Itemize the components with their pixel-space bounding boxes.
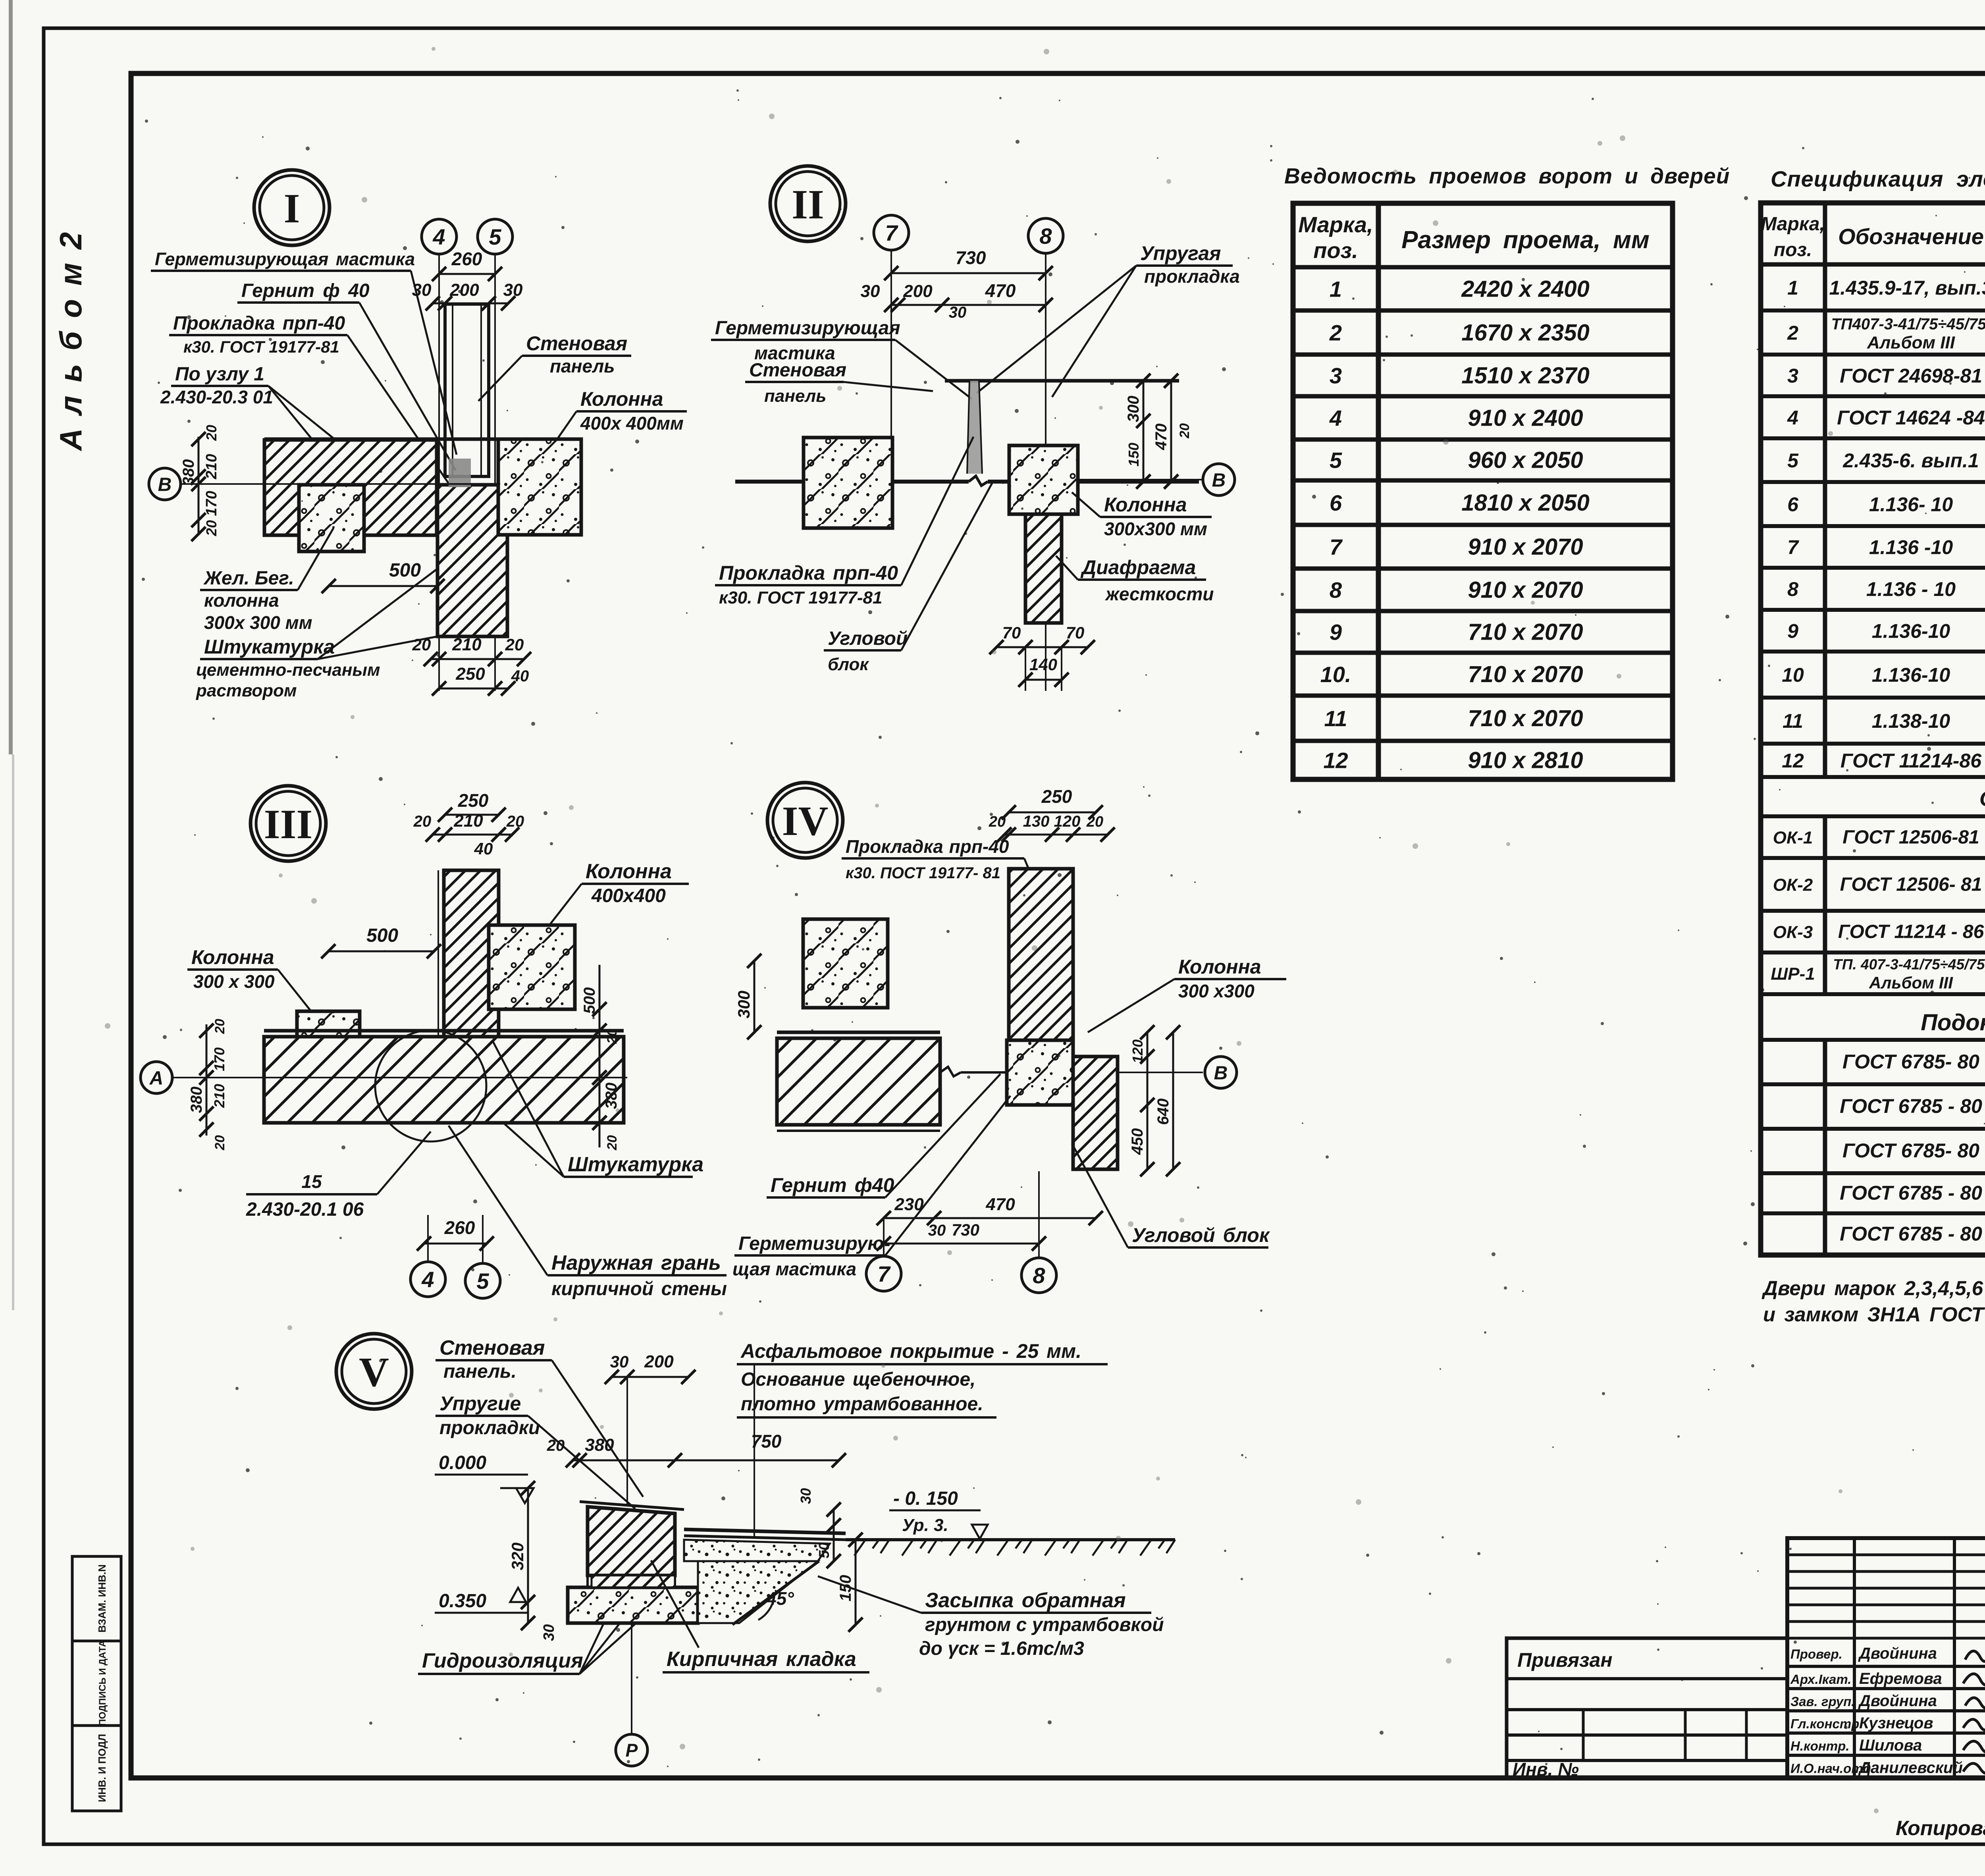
svg-text:170: 170 xyxy=(203,491,220,516)
svg-text:Размер проема, мм: Размер проема, мм xyxy=(1401,226,1650,254)
svg-text:плотно утрамбованное.: плотно утрамбованное. xyxy=(741,1394,983,1415)
svg-text:380: 380 xyxy=(180,459,197,486)
spec section okna xyxy=(1761,814,1985,818)
svg-text:ГОСТ 11214-86: ГОСТ 11214-86 xyxy=(1840,750,1982,772)
svg-text:Обозначение: Обозначение xyxy=(1838,224,1984,249)
svg-text:Зав. груп.: Зав. груп. xyxy=(1790,1694,1855,1709)
spec row ОК-3 xyxy=(1761,951,1985,954)
svg-text:300х300 мм: 300х300 мм xyxy=(1104,519,1207,539)
svg-text:раствором: раствором xyxy=(196,681,297,700)
detail V vert dims xyxy=(527,1488,529,1623)
svg-text:960 х 2050: 960 х 2050 xyxy=(1468,447,1583,473)
detail III slab xyxy=(264,1029,624,1033)
svg-text:200: 200 xyxy=(644,1352,674,1371)
svg-text:1510 х 2370: 1510 х 2370 xyxy=(1461,363,1590,389)
svg-text:к30. ГОСТ 19177-81: к30. ГОСТ 19177-81 xyxy=(183,337,339,356)
scan edge streak xyxy=(9,0,13,754)
svg-text:Стеновая: Стеновая xyxy=(439,1336,545,1359)
svg-text:Шилова: Шилова xyxy=(1859,1737,1922,1754)
svg-text:5: 5 xyxy=(476,1269,489,1294)
detail IV head circle xyxy=(767,783,843,858)
svg-text:к30. ПОСТ 19177- 81: к30. ПОСТ 19177- 81 xyxy=(846,864,1000,882)
detail III node circle xyxy=(375,1030,486,1141)
svg-text:710 х 2070: 710 х 2070 xyxy=(1468,661,1583,687)
svg-text:Двойнина: Двойнина xyxy=(1858,1645,1937,1662)
detail III axis bubble A xyxy=(141,1062,172,1093)
ground hatch tick xyxy=(1045,1540,1056,1556)
detail I left dim stack xyxy=(198,437,200,534)
svg-text:200: 200 xyxy=(449,280,479,300)
detail II sealant strip xyxy=(967,381,982,474)
svg-text:к30. ГОСТ 19177-81: к30. ГОСТ 19177-81 xyxy=(719,588,883,607)
svg-text:710 х 2070: 710 х 2070 xyxy=(1468,619,1583,645)
svg-text:130: 130 xyxy=(1023,813,1050,830)
svg-text:Упругая: Упругая xyxy=(1140,242,1221,264)
detail II left concrete block xyxy=(804,438,892,528)
spec row ОК-2 xyxy=(1761,909,1985,913)
svg-text:1.138-10: 1.138-10 xyxy=(1872,710,1950,732)
detail II right column concrete xyxy=(1009,445,1078,514)
spec row ОК-1 xyxy=(1761,856,1985,860)
svg-text:70: 70 xyxy=(1002,623,1021,642)
detail II right dims xyxy=(1143,381,1145,482)
svg-text:прокладки: прокладки xyxy=(439,1417,540,1438)
detail V slope 45 xyxy=(732,1561,819,1625)
svg-text:ГОСТ 14624 -84: ГОСТ 14624 -84 xyxy=(1837,407,1985,429)
svg-text:150: 150 xyxy=(1125,443,1142,467)
svg-text:20: 20 xyxy=(605,1029,620,1044)
spec row podokonnik xyxy=(1761,1127,1985,1131)
spec row 8 xyxy=(1761,608,1985,612)
svg-text:Колонна: Колонна xyxy=(586,860,672,883)
detail IV axis bubble 7 bottom xyxy=(866,1256,901,1291)
ground hatch tick xyxy=(1093,1540,1104,1556)
svg-text:Гидроизоляция: Гидроизоляция xyxy=(422,1649,583,1672)
svg-text:120: 120 xyxy=(1129,1039,1146,1063)
spec row podokonnik xyxy=(1761,1082,1985,1086)
detail I left column concrete xyxy=(299,485,364,551)
left margin stamp cells xyxy=(72,1556,121,1641)
detail IV right column concrete xyxy=(1007,1040,1073,1105)
svg-text:30: 30 xyxy=(949,304,967,321)
svg-text:ОК-1: ОК-1 xyxy=(1773,828,1813,848)
detail III right column concrete xyxy=(489,925,575,1009)
svg-text:2.430-20.1 06: 2.430-20.1 06 xyxy=(246,1199,364,1220)
svg-text:4: 4 xyxy=(432,224,445,249)
svg-text:и замком ЗН1А ГОСТ 5089-80,: и замком ЗН1А ГОСТ 5089-80,открывающимся… xyxy=(1763,1303,1985,1326)
detail III head circle xyxy=(251,786,326,861)
ground hatch tick xyxy=(854,1540,865,1556)
svg-text:730: 730 xyxy=(952,1220,979,1239)
spec section podokonnye doski xyxy=(1761,1038,1985,1042)
svg-text:10: 10 xyxy=(1782,664,1804,686)
svg-text:I: I xyxy=(284,185,300,231)
detail II grid line 7 xyxy=(890,250,892,484)
svg-text:380: 380 xyxy=(603,1083,620,1109)
detail IV wall hatched xyxy=(1009,869,1073,1040)
svg-text:210: 210 xyxy=(211,1084,227,1108)
spec row 1 xyxy=(1761,308,1985,312)
svg-text:50: 50 xyxy=(816,1542,832,1558)
svg-text:15: 15 xyxy=(301,1171,322,1192)
svg-text:250: 250 xyxy=(458,790,489,811)
svg-text:5: 5 xyxy=(489,224,501,249)
svg-text:1.136-10: 1.136-10 xyxy=(1872,664,1950,686)
svg-text:ГОСТ 6785 - 80: ГОСТ 6785 - 80 xyxy=(1840,1223,1982,1245)
svg-text:20: 20 xyxy=(547,1437,565,1454)
detail IV right dims xyxy=(1147,1032,1149,1169)
svg-text:V: V xyxy=(359,1349,389,1395)
spec row ШР-1 xyxy=(1761,992,1985,996)
svg-text:70: 70 xyxy=(1066,623,1085,642)
svg-text:6: 6 xyxy=(1787,494,1799,516)
svg-text:20: 20 xyxy=(212,1019,227,1034)
svg-text:250: 250 xyxy=(455,664,485,684)
detail I axis bubble 4 xyxy=(422,219,457,254)
svg-text:400х 400мм: 400х 400мм xyxy=(580,413,684,434)
detail II head circle xyxy=(770,166,846,241)
svg-text:Гл.констр.: Гл.констр. xyxy=(1790,1716,1863,1731)
svg-text:20: 20 xyxy=(506,813,524,830)
svg-text:470: 470 xyxy=(1152,424,1170,451)
svg-text:цементно-песчаным: цементно-песчаным xyxy=(196,660,380,680)
svg-text:8: 8 xyxy=(1330,578,1342,603)
svg-text:ГОСТ 6785- 80: ГОСТ 6785- 80 xyxy=(1842,1139,1979,1162)
svg-text:30: 30 xyxy=(861,281,880,301)
svg-text:260: 260 xyxy=(444,1217,475,1238)
svg-text:ГОСТ 12506- 81: ГОСТ 12506- 81 xyxy=(1840,874,1982,895)
svg-text:2: 2 xyxy=(1787,322,1798,344)
svg-text:ГОСТ 12506-81: ГОСТ 12506-81 xyxy=(1842,827,1979,848)
svg-text:Данилевский: Данилевский xyxy=(1858,1759,1963,1777)
svg-text:до γск = 1.6тс/м3: до γск = 1.6тс/м3 xyxy=(919,1638,1084,1659)
svg-text:Угловой: Угловой xyxy=(828,628,908,649)
title aux table privyazan xyxy=(1507,1638,1787,1778)
detail I sealant joint xyxy=(449,459,471,487)
svg-text:2.435-6. вып.1: 2.435-6. вып.1 xyxy=(1842,449,1979,472)
svg-text:1.435.9-17, вып.3: 1.435.9-17, вып.3 xyxy=(1829,277,1985,299)
svg-text:210: 210 xyxy=(203,454,220,479)
svg-text:2.430-20.3 01: 2.430-20.3 01 xyxy=(160,387,273,407)
detail V footing concrete xyxy=(698,1561,818,1623)
svg-text:30: 30 xyxy=(610,1352,629,1371)
svg-text:1: 1 xyxy=(1787,277,1798,299)
svg-text:Марка,: Марка, xyxy=(1761,214,1825,235)
svg-text:блок: блок xyxy=(828,655,869,674)
svg-text:ГОСТ 6785- 80: ГОСТ 6785- 80 xyxy=(1842,1051,1979,1073)
svg-text:910 х 2400: 910 х 2400 xyxy=(1468,405,1583,431)
detail V base block xyxy=(568,1587,698,1623)
table vedomost grid xyxy=(1293,203,1673,779)
svg-text:11: 11 xyxy=(1324,706,1347,731)
svg-text:В: В xyxy=(1212,470,1226,491)
svg-text:поз.: поз. xyxy=(1774,239,1812,260)
detail II axis bubble B xyxy=(1203,464,1235,496)
detail V asphalt strip xyxy=(684,1529,846,1533)
detail III left column concrete xyxy=(297,1011,360,1076)
svg-text:ГОСТ 6785 - 80: ГОСТ 6785 - 80 xyxy=(1840,1095,1982,1117)
svg-text:470: 470 xyxy=(985,1195,1015,1214)
svg-text:20: 20 xyxy=(989,814,1006,830)
svg-text:1.136 - 10: 1.136 - 10 xyxy=(1866,578,1956,600)
svg-text:IV: IV xyxy=(782,798,829,844)
svg-text:ГОСТ 24698-81: ГОСТ 24698-81 xyxy=(1840,365,1982,387)
svg-text:20: 20 xyxy=(413,813,432,830)
svg-text:Ур. 3.: Ур. 3. xyxy=(902,1515,948,1535)
detail V head circle xyxy=(336,1334,412,1409)
spec row 9 xyxy=(1761,650,1985,654)
detail III center wall hatched xyxy=(444,870,499,1039)
svg-text:8: 8 xyxy=(1033,1263,1045,1288)
svg-text:470: 470 xyxy=(985,280,1016,301)
svg-text:Угловой блок: Угловой блок xyxy=(1132,1224,1270,1246)
svg-text:910 х 2810: 910 х 2810 xyxy=(1468,748,1583,773)
svg-text:300: 300 xyxy=(1125,396,1142,422)
table spec grid header xyxy=(1761,203,1985,1255)
svg-text:прокладка: прокладка xyxy=(1144,266,1240,287)
detail III axis bubble 4 bottom xyxy=(410,1262,445,1297)
svg-text:ПОДПИСЬ И ДАТА: ПОДПИСЬ И ДАТА xyxy=(97,1640,108,1726)
svg-text:0.350: 0.350 xyxy=(439,1591,486,1612)
svg-text:Кирпичная кладка: Кирпичная кладка xyxy=(667,1648,856,1671)
svg-text:380: 380 xyxy=(188,1087,205,1113)
svg-text:910 х 2070: 910 х 2070 xyxy=(1468,534,1583,560)
svg-text:щая мастика: щая мастика xyxy=(732,1259,856,1279)
svg-text:640: 640 xyxy=(1154,1099,1172,1125)
svg-text:7: 7 xyxy=(877,1261,891,1286)
svg-text:жесткости: жесткости xyxy=(1104,584,1214,604)
svg-text:Двойнина: Двойнина xyxy=(1858,1692,1937,1710)
svg-text:колонна: колонна xyxy=(204,590,279,611)
detail I left wall hatched xyxy=(264,440,437,535)
detail I wall panel xyxy=(445,304,489,476)
svg-text:Привязан: Привязан xyxy=(1517,1649,1613,1671)
svg-text:Прокладка прп-40: Прокладка прп-40 xyxy=(846,836,1009,857)
detail V right vert dims xyxy=(833,1510,835,1561)
svg-text:300х 300 мм: 300х 300 мм xyxy=(204,612,312,633)
svg-text:кирпичной стены: кирпичной стены xyxy=(551,1278,727,1300)
svg-text:панель: панель xyxy=(764,386,826,406)
svg-text:О К Н А: О К Н А xyxy=(1979,787,1985,811)
svg-text:750: 750 xyxy=(751,1431,782,1452)
spec row 7 xyxy=(1761,566,1985,570)
ground hatch tick xyxy=(997,1540,1008,1556)
ground hatch tick xyxy=(1140,1540,1151,1556)
svg-text:Марка,: Марка, xyxy=(1298,212,1373,237)
svg-text:Колонна: Колонна xyxy=(191,946,274,968)
svg-text:ТП. 407-3-41/75÷45/75,: ТП. 407-3-41/75÷45/75, xyxy=(1833,956,1985,973)
detail IV left concrete block xyxy=(803,919,888,1008)
svg-text:Ведомость проемов ворот и дв: Ведомость проемов ворот и дверей xyxy=(1284,164,1730,188)
svg-text:7: 7 xyxy=(1787,536,1799,559)
svg-text:5: 5 xyxy=(1330,448,1342,473)
detail V axis bubble R xyxy=(616,1734,648,1766)
svg-text:1.136-10: 1.136-10 xyxy=(1872,620,1950,642)
svg-text:ОК-3: ОК-3 xyxy=(1773,923,1813,942)
spec row podokonnik xyxy=(1761,1171,1985,1175)
svg-text:Р: Р xyxy=(626,1740,638,1761)
svg-text:Прокладка прп-40: Прокладка прп-40 xyxy=(719,562,898,584)
svg-text:250: 250 xyxy=(1041,786,1072,807)
svg-text:1.136- 10: 1.136- 10 xyxy=(1869,494,1953,516)
svg-text:20: 20 xyxy=(412,635,431,654)
svg-text:1: 1 xyxy=(1330,277,1342,302)
svg-text:20: 20 xyxy=(203,520,220,536)
svg-text:Ефремова: Ефремова xyxy=(1859,1670,1942,1687)
svg-text:140: 140 xyxy=(1029,655,1057,674)
svg-text:45°: 45° xyxy=(766,1588,794,1609)
spec row 6 xyxy=(1761,524,1985,528)
svg-text:Герметизирующая: Герметизирующая xyxy=(715,318,900,339)
svg-text:ГОСТ 6785 - 80: ГОСТ 6785 - 80 xyxy=(1840,1182,1982,1204)
svg-text:Копировал Подлевская: Копировал Подлевская xyxy=(1896,1817,1985,1840)
detail IV left slab xyxy=(777,1031,940,1034)
svg-text:Асфальтовое покрытие - 25 мм.: Асфальтовое покрытие - 25 мм. xyxy=(740,1340,1081,1362)
detail I right column concrete xyxy=(498,439,581,535)
detail II grid line 8 xyxy=(1045,253,1046,691)
svg-text:9: 9 xyxy=(1787,620,1798,642)
detail IV axis bubble B xyxy=(1205,1057,1237,1088)
svg-text:По узлу 1: По узлу 1 xyxy=(175,364,264,385)
svg-text:ОК-2: ОК-2 xyxy=(1773,875,1813,895)
svg-text:20: 20 xyxy=(1177,423,1192,439)
ground hatch tick xyxy=(902,1540,913,1556)
svg-text:400х400: 400х400 xyxy=(591,885,666,906)
svg-text:4: 4 xyxy=(421,1267,434,1292)
svg-text:5: 5 xyxy=(1787,449,1799,472)
detail II axis bubble 8 xyxy=(1028,218,1063,253)
svg-text:Альбом III: Альбом III xyxy=(1869,974,1953,992)
svg-text:Колонна: Колонна xyxy=(580,388,663,410)
svg-text:Жел. Бег.: Жел. Бег. xyxy=(203,568,294,589)
svg-text:11: 11 xyxy=(1783,710,1803,732)
svg-text:20: 20 xyxy=(605,1135,620,1151)
svg-text:Инв. №: Инв. № xyxy=(1513,1759,1579,1780)
svg-text:Упругие: Упругие xyxy=(439,1392,521,1415)
svg-text:4: 4 xyxy=(1329,406,1342,431)
svg-text:8: 8 xyxy=(1787,578,1798,600)
detail I head circle xyxy=(254,170,330,245)
spec row 10 xyxy=(1761,696,1985,700)
svg-text:Колонна: Колонна xyxy=(1178,956,1261,978)
detail III left dim stack xyxy=(206,1024,208,1136)
svg-text:поз.: поз. xyxy=(1313,238,1358,263)
svg-text:грунтом с утрамбовкой: грунтом с утрамбовкой xyxy=(925,1614,1164,1635)
title signatures xyxy=(1965,1648,1985,1661)
svg-text:30: 30 xyxy=(541,1624,557,1641)
detail V wall panel hatched xyxy=(588,1507,675,1575)
svg-text:9: 9 xyxy=(1330,620,1342,645)
svg-text:500: 500 xyxy=(366,925,398,946)
svg-text:Стеновая: Стеновая xyxy=(526,332,627,355)
svg-text:Арх.Iкат.: Арх.Iкат. xyxy=(1790,1672,1851,1687)
svg-text:20: 20 xyxy=(505,635,524,654)
svg-text:6: 6 xyxy=(1330,490,1342,515)
title block signature table xyxy=(1787,1538,1985,1778)
svg-text:Герметизирующая мастика: Герметизирующая мастика xyxy=(155,249,415,269)
svg-text:Гернит ф40: Гернит ф40 xyxy=(771,1174,894,1196)
svg-text:0.000: 0.000 xyxy=(439,1452,486,1473)
svg-text:40: 40 xyxy=(474,839,493,858)
detail IV floor line xyxy=(940,1067,961,1076)
svg-text:ГОСТ 11214 - 86: ГОСТ 11214 - 86 xyxy=(1838,922,1984,943)
svg-text:1670 х 2350: 1670 х 2350 xyxy=(1461,320,1590,346)
spec row 4 xyxy=(1761,436,1985,440)
svg-text:А: А xyxy=(149,1068,164,1089)
detail IV axis bubble 8 bottom xyxy=(1021,1258,1056,1293)
svg-text:2: 2 xyxy=(1329,320,1342,345)
svg-text:10.: 10. xyxy=(1320,662,1351,687)
detail III axis bubble 5 bottom xyxy=(465,1263,500,1298)
svg-text:Подоконные доски: Подоконные доски xyxy=(1921,1010,1985,1035)
svg-text:500: 500 xyxy=(581,987,598,1014)
svg-text:380: 380 xyxy=(585,1435,614,1455)
svg-text:8: 8 xyxy=(1039,224,1052,249)
spec row 11 xyxy=(1761,742,1985,746)
detail IV dim 300 left xyxy=(754,961,755,1032)
svg-text:Колонна: Колонна xyxy=(1104,494,1187,516)
svg-text:Герметизирую-: Герметизирую- xyxy=(738,1233,890,1254)
svg-text:230: 230 xyxy=(894,1195,924,1214)
svg-text:А л ь б о м 2: А л ь б о м 2 xyxy=(53,230,88,451)
svg-text:В: В xyxy=(158,474,172,495)
detail II floor line xyxy=(735,480,969,484)
detail V ground line xyxy=(846,1538,1175,1541)
svg-text:200: 200 xyxy=(903,281,933,301)
svg-text:Альбом III: Альбом III xyxy=(1867,333,1955,353)
svg-text:7: 7 xyxy=(885,220,898,245)
svg-text:Кузнецов: Кузнецов xyxy=(1859,1714,1933,1732)
svg-text:ТП407-3-41/75÷45/75,: ТП407-3-41/75÷45/75, xyxy=(1831,316,1985,333)
detail I axis bubble 5 xyxy=(478,219,513,254)
svg-text:1810 х 2050: 1810 х 2050 xyxy=(1461,490,1590,516)
detail IV right wall hatched xyxy=(1073,1057,1118,1169)
svg-text:210: 210 xyxy=(452,635,482,654)
svg-text:Штукатурка: Штукатурка xyxy=(568,1153,703,1176)
svg-text:панель: панель xyxy=(550,356,615,376)
svg-text:3: 3 xyxy=(1787,365,1798,387)
svg-text:170: 170 xyxy=(211,1047,227,1071)
svg-text:Н.контр.: Н.контр. xyxy=(1790,1739,1849,1753)
svg-text:210: 210 xyxy=(453,811,483,831)
svg-text:500: 500 xyxy=(389,560,421,581)
detail I grid line 5 xyxy=(494,254,496,691)
svg-text:450: 450 xyxy=(1129,1128,1146,1155)
svg-text:300 х300: 300 х300 xyxy=(1178,981,1255,1001)
svg-text:730: 730 xyxy=(956,247,986,268)
detail II panel top line xyxy=(945,379,1179,383)
svg-text:ШР-1: ШР-1 xyxy=(1771,964,1815,984)
svg-text:Провер.: Провер. xyxy=(1790,1647,1842,1662)
svg-text:20: 20 xyxy=(203,425,220,441)
svg-text:ИНВ. И ПОДЛ: ИНВ. И ПОДЛ xyxy=(96,1734,108,1802)
spec row podokonnik xyxy=(1761,1211,1985,1215)
svg-text:12: 12 xyxy=(1782,750,1804,772)
svg-text:Наружная грань: Наружная грань xyxy=(551,1251,721,1274)
svg-text:Гернит ф 40: Гернит ф 40 xyxy=(241,280,370,301)
svg-text:320: 320 xyxy=(508,1542,527,1570)
svg-text:Основание щебеночное,: Основание щебеночное, xyxy=(741,1369,975,1390)
svg-text:30: 30 xyxy=(928,1222,946,1239)
svg-text:12: 12 xyxy=(1323,748,1348,773)
svg-text:300: 300 xyxy=(734,991,753,1018)
detail I axis bubble B xyxy=(149,468,181,500)
svg-text:260: 260 xyxy=(451,249,482,269)
svg-text:панель.: панель. xyxy=(443,1361,516,1382)
ground hatch tick xyxy=(950,1540,961,1556)
detail II diaphragm hatched xyxy=(1025,514,1062,623)
svg-text:710 х 2070: 710 х 2070 xyxy=(1468,706,1583,731)
